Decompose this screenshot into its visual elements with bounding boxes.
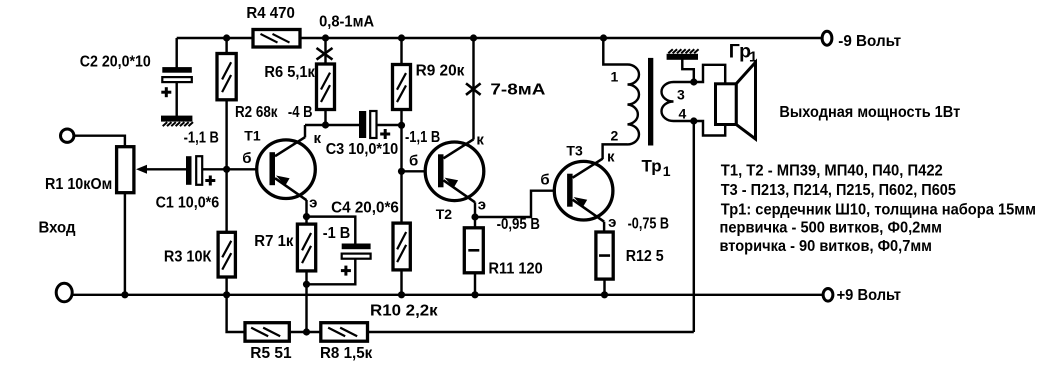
svg-text:R9 20к: R9 20к — [416, 62, 466, 79]
plus C3 — [380, 133, 390, 136]
transformer Tr1 primary winding — [628, 65, 640, 145]
plus C4 — [341, 269, 351, 272]
svg-text:R4 470: R4 470 — [246, 5, 295, 22]
wire R9 to node — [400, 109, 402, 125]
wire emitter node to C4 — [307, 217, 356, 244]
svg-text:1: 1 — [663, 163, 671, 179]
wire C1 to node T1-base — [203, 168, 227, 170]
plus C1 — [205, 179, 215, 182]
terminal -9V — [822, 31, 832, 45]
wire node to T2 base — [400, 125, 402, 171]
wire base T2 — [402, 170, 443, 172]
svg-text:б: б — [409, 153, 418, 170]
transistor T1 — [257, 137, 316, 200]
junction R1/rail — [121, 291, 128, 298]
wire rail to R5 — [227, 295, 246, 332]
capacitor C2 — [162, 67, 192, 73]
svg-text:Т1: Т1 — [244, 127, 261, 143]
wire R2 to T1 base and R3 — [225, 100, 227, 233]
input terminal top — [60, 129, 73, 142]
resistor R10 — [393, 223, 410, 270]
junction T1 emitter node — [303, 213, 310, 220]
transistor T2 — [425, 139, 484, 202]
junction T2 base node — [398, 168, 405, 175]
resistor R8 — [321, 323, 368, 342]
wire secondary pin4 — [674, 120, 694, 122]
junction rail/R6 — [322, 34, 329, 41]
X mark 7-8mA — [466, 83, 481, 94]
junction R9/node — [398, 122, 405, 129]
svg-text:R3 10К: R3 10К — [164, 249, 212, 266]
wire T2 emitter — [474, 202, 476, 217]
svg-text:1: 1 — [611, 69, 619, 85]
capacitor C1 — [186, 156, 192, 185]
wire pin3 to speaker — [694, 65, 725, 84]
wire rail to primary pin1 — [603, 38, 627, 65]
wire T1 emitter — [305, 200, 307, 217]
resistor R5 — [245, 323, 289, 342]
wire T2 emitter to T3 base — [475, 191, 572, 217]
resistor R11 — [464, 228, 483, 273]
junction R11/rail — [471, 291, 478, 298]
svg-text:2: 2 — [611, 128, 619, 144]
svg-text:3: 3 — [677, 87, 685, 103]
wire secondary pin3 — [674, 81, 694, 83]
wire pin4 to speaker — [694, 121, 725, 136]
junction rail/primary — [600, 34, 607, 41]
wire wiper to C1 — [147, 168, 187, 170]
svg-text:C2 20,0*10: C2 20,0*10 — [80, 53, 151, 70]
svg-text:Т2: Т2 — [436, 206, 453, 222]
wire R10 to rail — [400, 269, 402, 294]
svg-text:Гр: Гр — [729, 41, 751, 63]
svg-text:вторичка - 90 витков, Ф0,7мм: вторичка - 90 витков, Ф0,7мм — [720, 238, 933, 255]
svg-text:Тр1: сердечник Ш10, толщина на: Тр1: сердечник Ш10, толщина набора 15мм — [721, 202, 1036, 219]
wire base T1 — [227, 168, 274, 170]
wire rail to R9 — [400, 38, 402, 65]
svg-text:-9 Вольт: -9 Вольт — [838, 33, 901, 50]
speaker Gr1 body — [716, 84, 737, 125]
junction rail/R2 — [223, 34, 230, 41]
svg-text:б: б — [242, 150, 251, 167]
svg-text:-1,1 В: -1,1 В — [405, 129, 440, 146]
wire C3 to R9 node — [377, 124, 402, 126]
svg-text:к: к — [607, 149, 615, 166]
svg-text:э: э — [309, 195, 317, 212]
svg-text:э: э — [478, 197, 486, 214]
junction T1 base node — [223, 166, 230, 173]
svg-text:-0,75 В: -0,75 В — [628, 216, 669, 233]
svg-text:+9 Вольт: +9 Вольт — [837, 287, 902, 304]
resistor R2 — [217, 54, 236, 100]
resistor R9 — [393, 65, 411, 110]
junction pin3 node — [690, 78, 697, 85]
transformer Tr1 core — [648, 58, 653, 146]
terminal +9V — [823, 289, 833, 302]
svg-text:к: к — [476, 132, 484, 149]
resistor R7 — [297, 224, 315, 271]
wire R11 to rail — [474, 272, 476, 295]
resistor R1 (potentiometer) — [117, 147, 134, 193]
svg-text:7-8мА: 7-8мА — [490, 82, 546, 99]
junction R6/node — [322, 121, 329, 128]
svg-text:-4 В: -4 В — [288, 104, 313, 121]
wire T1 collector — [304, 125, 306, 137]
svg-text:б: б — [540, 172, 549, 189]
wire emitter node to R7 — [305, 217, 307, 225]
X mark 0,8-1mA — [317, 48, 333, 60]
wire R6 to node — [324, 109, 326, 125]
resistor R3 — [218, 232, 235, 277]
svg-text:C4 20,0*6: C4 20,0*6 — [331, 200, 399, 217]
input terminal bottom — [56, 283, 72, 302]
wire R3 to rail — [225, 277, 227, 295]
svg-text:1: 1 — [749, 49, 757, 66]
svg-text:R7 1к: R7 1к — [254, 233, 294, 250]
transistor T3 — [554, 159, 613, 222]
transformer Tr1 secondary winding — [662, 82, 674, 121]
svg-text:-1,1 В: -1,1 В — [184, 130, 219, 147]
wire C2 to ground — [175, 83, 177, 117]
svg-text:Т3 - П213, П214, П215, П602, П: Т3 - П213, П214, П215, П602, П605 — [721, 182, 956, 199]
wire C4 to feedback junction — [307, 258, 356, 284]
svg-text:первичка - 500 витков, Ф0,2мм: первичка - 500 витков, Ф0,2мм — [720, 220, 943, 237]
wire R12 to rail — [603, 279, 605, 295]
svg-text:R10 2,2к: R10 2,2к — [370, 302, 439, 319]
junction R5/R8 feedback — [303, 328, 310, 335]
wire T2 emitter to R11 — [474, 217, 476, 229]
junction pin4 node — [690, 117, 697, 124]
wire R5 to R8 — [289, 331, 321, 333]
svg-text:4: 4 — [679, 106, 687, 122]
junction R12/rail — [601, 291, 608, 298]
wire rail to R2 — [225, 38, 227, 54]
wire R1 bottom to rail — [124, 193, 126, 295]
svg-text:R12 5: R12 5 — [626, 248, 664, 265]
svg-text:Т3: Т3 — [566, 143, 583, 159]
wire rail to R6 (current break) — [324, 38, 326, 65]
capacitor C4 — [342, 244, 371, 250]
junction rail/R9 — [398, 34, 405, 41]
svg-text:-0,95 В: -0,95 В — [497, 216, 540, 233]
junction R10/rail — [398, 291, 405, 298]
svg-text:к: к — [314, 130, 322, 147]
resistor R6 — [317, 64, 335, 110]
svg-text:э: э — [608, 214, 616, 231]
junction R7/C4 — [303, 281, 310, 288]
wire T2base to R10 — [400, 171, 402, 223]
svg-text:0,8-1мА: 0,8-1мА — [319, 13, 374, 30]
wire rail to T2 collector (current break) — [472, 38, 474, 140]
junction R3/rail — [223, 291, 230, 298]
svg-text:Тр: Тр — [642, 156, 662, 175]
svg-text:R2 68к: R2 68к — [235, 104, 278, 121]
wire T1 collector node — [305, 124, 360, 126]
svg-text:-1 В: -1 В — [323, 225, 351, 242]
ground (secondary) — [667, 54, 698, 60]
speaker Gr1 horn — [736, 62, 755, 139]
wire rail to C2 — [175, 38, 177, 68]
ground (C2) — [161, 116, 192, 122]
capacitor C3 — [359, 111, 366, 138]
svg-text:C1 10,0*6: C1 10,0*6 — [156, 194, 220, 211]
resistor R12 — [596, 232, 613, 279]
svg-text:R5 51: R5 51 — [250, 345, 291, 362]
wire T3 collector to primary — [603, 144, 628, 159]
resistor R4 — [253, 30, 300, 48]
junction T2 emitter node — [471, 213, 478, 220]
svg-text:R8 1,5к: R8 1,5к — [320, 345, 373, 362]
svg-text:R1 10кОм: R1 10кОм — [45, 176, 112, 193]
svg-text:C3 10,0*10: C3 10,0*10 — [326, 141, 399, 158]
wire ground to pin3 — [682, 60, 694, 83]
svg-text:R11 120: R11 120 — [489, 261, 543, 278]
wire input top to R1 — [74, 136, 125, 147]
wiper arrow R1 — [136, 165, 147, 174]
wire bottom +9V rail — [73, 294, 823, 296]
wire feedback line — [367, 331, 694, 333]
junction rail/T2 collector — [470, 34, 477, 41]
svg-text:Выходная мощность 1Вт: Выходная мощность 1Вт — [779, 104, 960, 121]
svg-text:Т1, Т2 - МП39, МП40, П40, П422: Т1, Т2 - МП39, МП40, П40, П422 — [721, 163, 943, 180]
wire pin4 to feedback line — [693, 121, 695, 332]
wire T3 emitter — [603, 222, 605, 233]
plus C2 — [161, 91, 171, 94]
svg-text:R6 5,1к: R6 5,1к — [264, 64, 315, 81]
svg-text:Вход: Вход — [39, 219, 76, 236]
wire R7 to feedback junction — [305, 270, 307, 332]
wire top -9V rail — [177, 37, 822, 39]
